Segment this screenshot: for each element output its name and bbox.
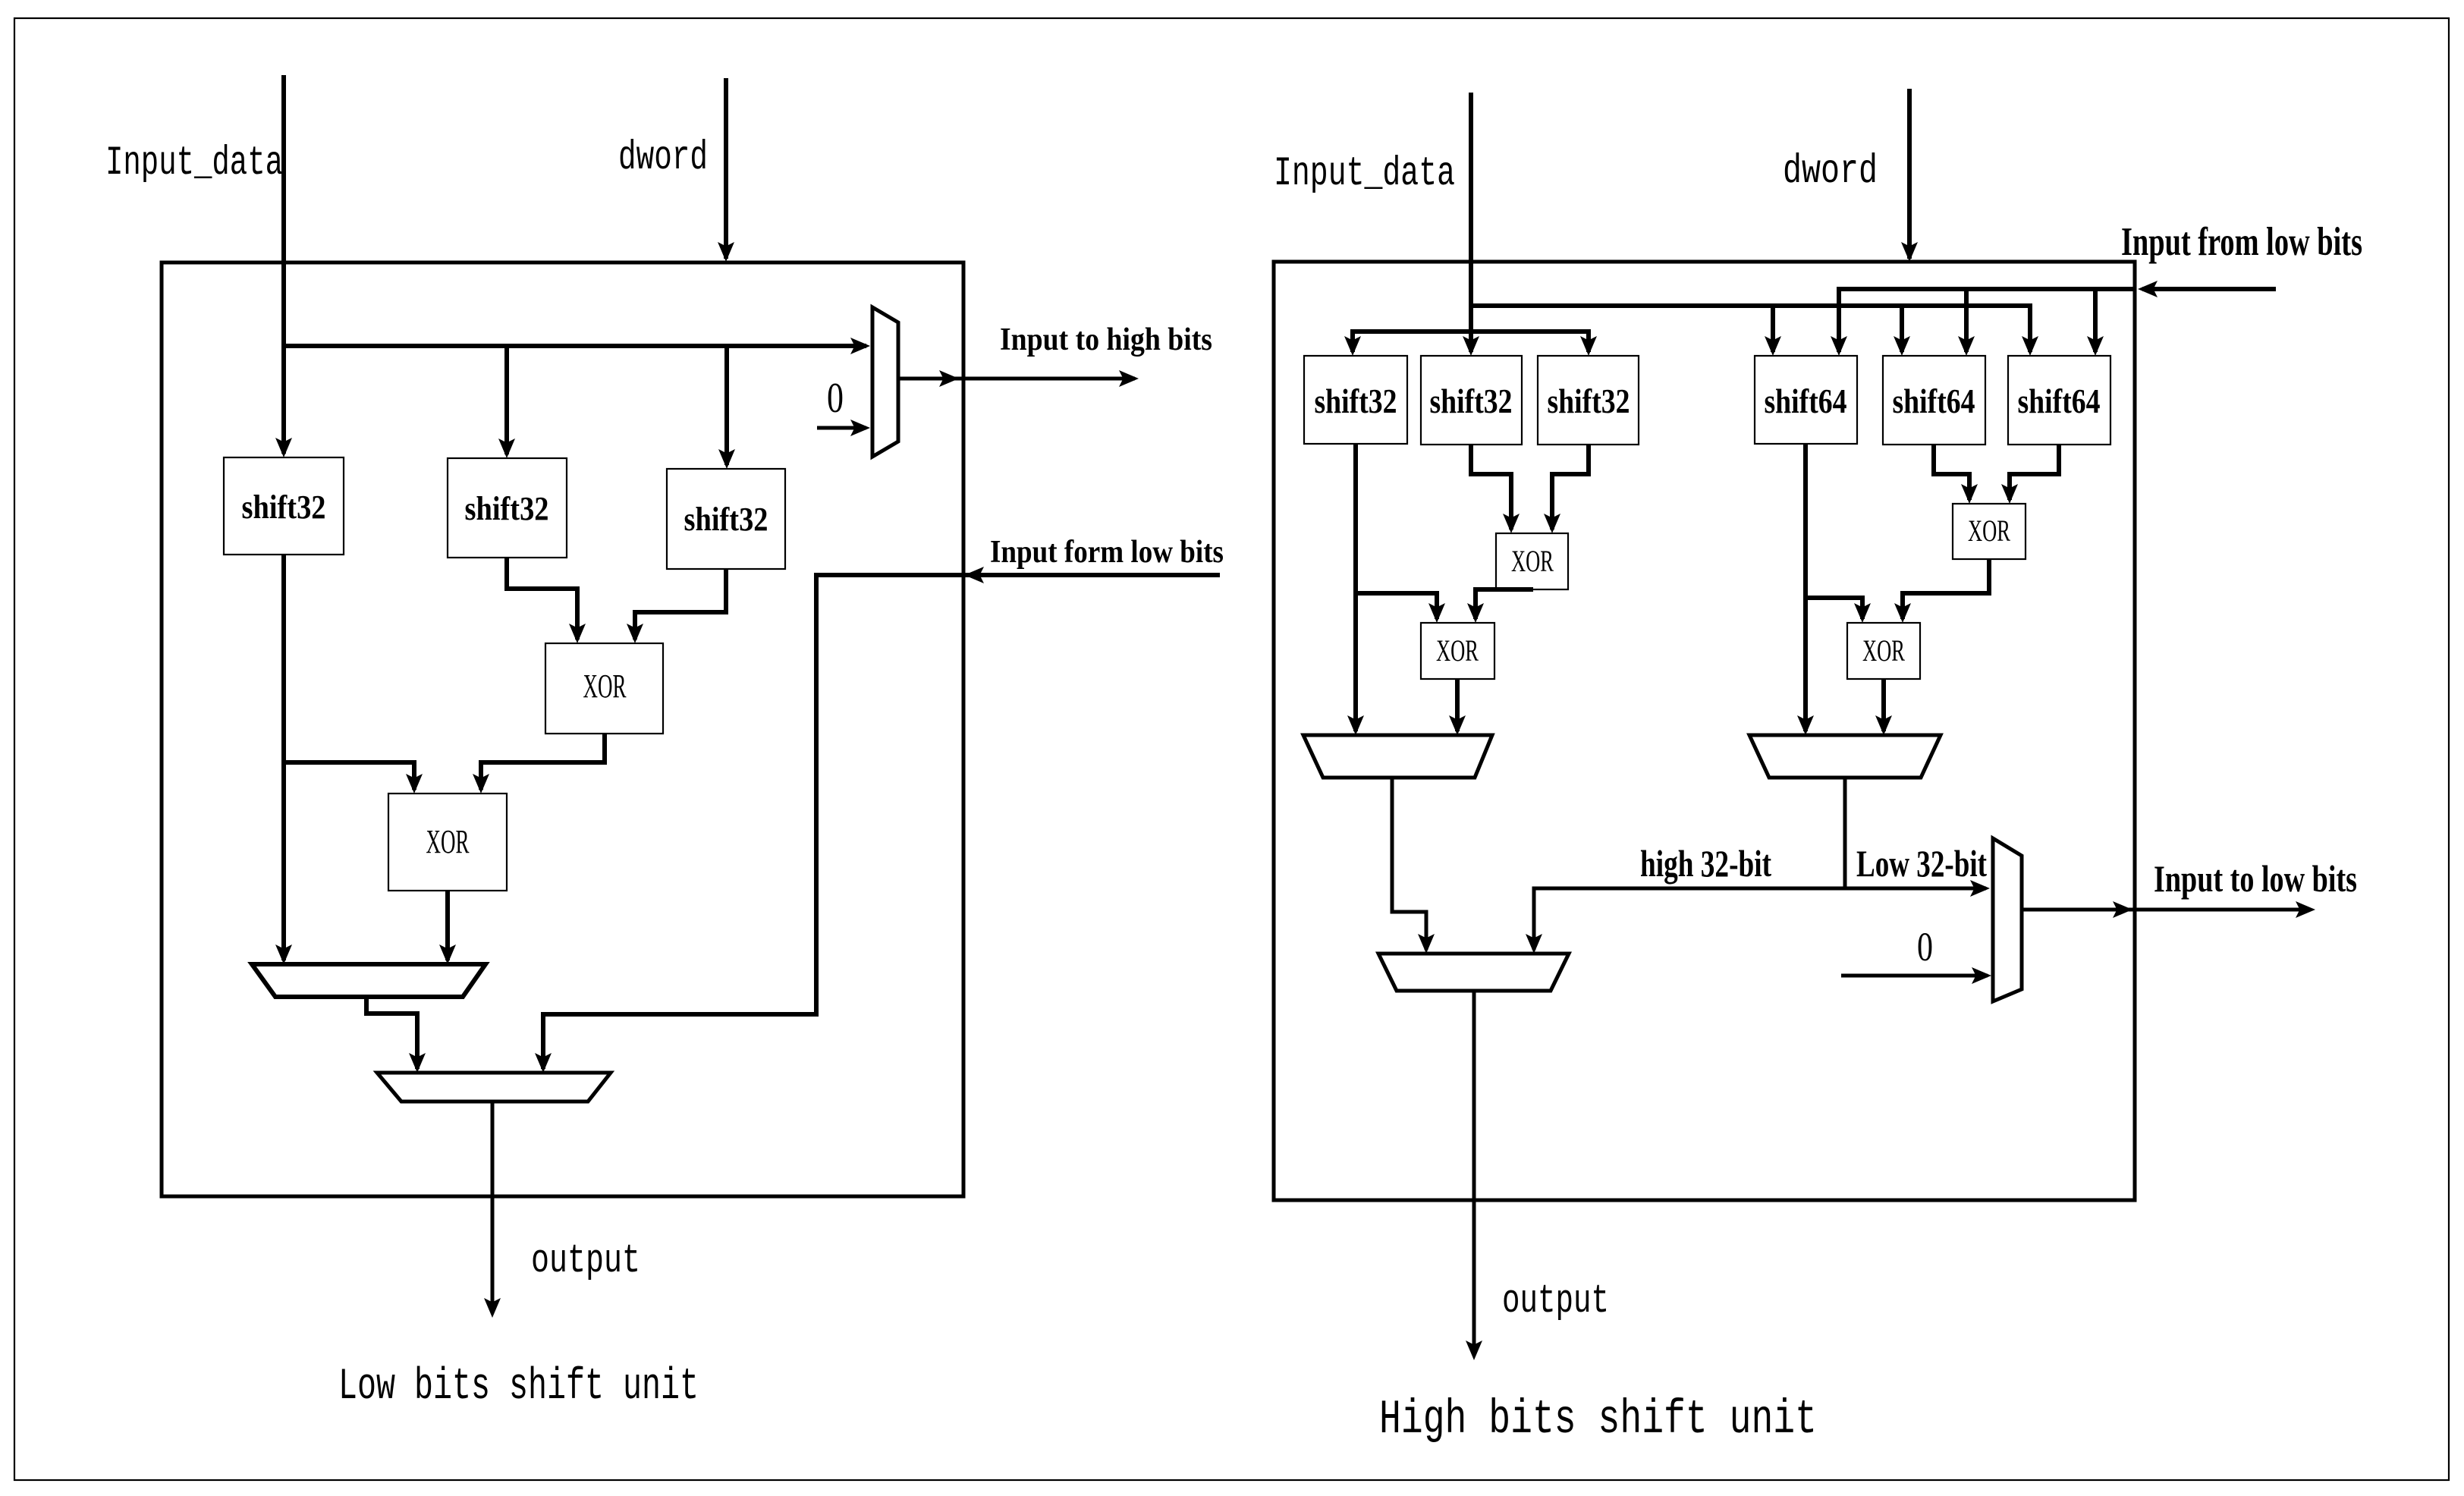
svg-text:Low bits shift unit: Low bits shift unit bbox=[338, 1362, 699, 1412]
wire low-bits bus (upper bus) bbox=[1839, 287, 2135, 291]
mux R3 (trapezoid) bbox=[1378, 954, 1569, 991]
svg-text:Input form low bits: Input form low bits bbox=[990, 535, 1224, 570]
svg-text:High bits shift unit: High bits shift unit bbox=[1379, 1393, 1817, 1447]
wire drop bus to shift64 R3 right input bbox=[2093, 289, 2098, 352]
svg-text:high 32-bit: high 32-bit bbox=[1640, 842, 1771, 885]
arrow into shift32 L1 bbox=[275, 438, 292, 457]
svg-text:shift32: shift32 bbox=[684, 501, 768, 538]
wire output (right unit) bbox=[1472, 991, 1476, 1356]
wire mux R4 output / Input to low bits bbox=[2022, 908, 2302, 912]
svg-text:XOR: XOR bbox=[583, 668, 627, 705]
arrow into shift32 L2 bbox=[498, 438, 515, 458]
svg-text:shift32: shift32 bbox=[1430, 382, 1513, 420]
arrow into shift64 R3 left input bbox=[2022, 336, 2038, 356]
svg-text:XOR: XOR bbox=[1968, 514, 2010, 548]
svg-text:shift32: shift32 bbox=[1548, 382, 1630, 420]
arrow into XOR RC right input bbox=[2001, 484, 2018, 504]
svg-text:shift32: shift32 bbox=[465, 490, 549, 527]
svg-text:shift64: shift64 bbox=[1765, 382, 1847, 420]
arrow dword into unit box (right) bbox=[1901, 242, 1918, 262]
wire shift32 L1 output down to mux L1 bbox=[281, 555, 286, 960]
arrow into shift64 R3 right input bbox=[2087, 336, 2104, 356]
arrow Input form low bits at box edge bbox=[964, 567, 984, 583]
XOR RB bbox=[1421, 623, 1494, 679]
XOR L1 bbox=[545, 643, 663, 734]
unit box (High bits shift unit) bbox=[1274, 262, 2135, 1200]
svg-text:shift64: shift64 bbox=[2018, 382, 2101, 420]
wire shift32 bus (right unit) bbox=[1353, 329, 1589, 334]
mux L1 (trapezoid) bbox=[252, 964, 486, 997]
arrow into XOR RB left input bbox=[1428, 603, 1445, 623]
wire shift64 R2 output to XOR RC bbox=[1934, 445, 1969, 500]
svg-text:shift32: shift32 bbox=[1315, 382, 1397, 420]
wire Input from low bits external arrow bbox=[2142, 287, 2276, 291]
arrow Input to high bits end bbox=[1119, 370, 1139, 387]
svg-text:XOR: XOR bbox=[1436, 633, 1479, 668]
arrow Input to low bits end bbox=[2296, 901, 2315, 918]
arrow into mux R3 left input bbox=[1418, 934, 1435, 954]
wire shift64 R3 output to XOR RC bbox=[2010, 445, 2059, 500]
arrow output (left unit) bbox=[484, 1298, 501, 1318]
arrow into XOR RB right input bbox=[1467, 603, 1484, 623]
arrow Low 32-bit into mux R4 bbox=[1970, 880, 1990, 897]
arrow dword into unit box (left) bbox=[718, 242, 734, 262]
arrow into XOR RA left input bbox=[1503, 514, 1520, 533]
arrow into mux R1 right input bbox=[1449, 715, 1466, 735]
arrow into shift32 R1 bbox=[1344, 336, 1361, 356]
svg-text:Input from low bits: Input from low bits bbox=[2121, 220, 2362, 264]
wire drop to shift64 R2 left input bbox=[1900, 306, 1904, 352]
arrow mux R4 output at box edge bbox=[2113, 901, 2132, 918]
wire branch shift64 R1 output to XOR RD bbox=[1806, 598, 1862, 619]
wire XOR L1 output to XOR L2 bbox=[481, 734, 605, 790]
wire dword (right) bbox=[1907, 89, 1912, 259]
svg-text:dword: dword bbox=[618, 135, 708, 181]
wire drop to shift32 R3 bbox=[1586, 329, 1591, 352]
arrow into mux L2 left input bbox=[409, 1053, 426, 1073]
svg-text:output: output bbox=[531, 1238, 640, 1284]
wire drop to shift64 R3 left input bbox=[2028, 303, 2032, 352]
svg-text:Input_data: Input_data bbox=[1274, 151, 1455, 197]
XOR RD bbox=[1847, 623, 1920, 679]
wire mux R2 output down bbox=[1843, 778, 1847, 888]
shift32 L2 bbox=[448, 458, 567, 558]
wire XOR RB output to mux R1 bbox=[1455, 679, 1460, 731]
arrow zero into mux ML bbox=[850, 420, 870, 436]
wire Input form low bits (external + internal) bbox=[543, 575, 1220, 1069]
arrow into XOR L1 right input bbox=[627, 624, 643, 643]
arrow into XOR RD left input bbox=[1854, 603, 1871, 623]
svg-text:dword: dword bbox=[1783, 149, 1878, 195]
svg-text:XOR: XOR bbox=[1511, 544, 1554, 578]
svg-text:output: output bbox=[1502, 1278, 1609, 1324]
wire Input_data (right) bbox=[1469, 93, 1473, 352]
arrow mux ML output at box edge bbox=[939, 370, 959, 387]
wire zero input to mux ML bbox=[817, 426, 866, 430]
svg-text:XOR: XOR bbox=[426, 823, 470, 860]
shift32 R3 bbox=[1538, 356, 1639, 445]
arrow into XOR L2 right input bbox=[473, 774, 489, 794]
arrow output (right unit) bbox=[1466, 1340, 1482, 1360]
svg-text:Input_data: Input_data bbox=[105, 140, 283, 187]
wire Input_data bus to shift64 left inputs (lower bus) bbox=[1471, 303, 2030, 308]
arrow Input from low bits at box edge bbox=[2138, 281, 2158, 297]
mux L2 (trapezoid) bbox=[377, 1073, 611, 1102]
arrow into XOR L1 left input bbox=[569, 624, 586, 643]
svg-text:shift32: shift32 bbox=[242, 489, 326, 526]
wire high 32-bit to mux R3 bbox=[1534, 888, 1845, 950]
shift32 R2 bbox=[1421, 356, 1522, 445]
wire Input_data (left) bbox=[281, 75, 286, 454]
wire drop to shift32 R1 bbox=[1350, 329, 1355, 352]
arrow into shift64 R2 left input bbox=[1894, 336, 1910, 356]
arrow into mux L2 right input bbox=[535, 1053, 552, 1073]
svg-text:Input to high bits: Input to high bits bbox=[1000, 322, 1212, 357]
arrow into mux R2 left input bbox=[1797, 715, 1814, 735]
shift64 R2 bbox=[1883, 356, 1985, 445]
wire drop to shift32 L2 bbox=[504, 346, 509, 454]
XOR RC bbox=[1953, 504, 2026, 559]
arrow into shift32 R2 bbox=[1463, 336, 1479, 356]
mux R4 (vertical mux near Input to low bits) bbox=[1993, 838, 2022, 1001]
shift64 R1 bbox=[1755, 356, 1857, 444]
arrow into XOR RA right input bbox=[1544, 514, 1560, 533]
arrow into shift32 L3 bbox=[718, 449, 735, 469]
arrow into mux R2 right input bbox=[1875, 715, 1892, 735]
arrow into shift64 R1 left input bbox=[1765, 336, 1781, 356]
wire XOR RA output to XOR RB bbox=[1476, 589, 1533, 619]
arrow into shift32 R3 bbox=[1580, 336, 1597, 356]
mux R2 (trapezoid) bbox=[1749, 735, 1941, 778]
arrow into shift64 R1 right input bbox=[1831, 336, 1847, 356]
wire XOR RD output to mux R2 bbox=[1881, 679, 1886, 731]
wire shift32 L3 output to XOR L1 bbox=[635, 569, 726, 640]
wire shift32 R3 output to XOR RA bbox=[1552, 445, 1589, 530]
wire drop bus to shift64 R2 right input bbox=[1964, 289, 1969, 352]
svg-text:shift64: shift64 bbox=[1893, 382, 1975, 420]
wire drop bus to shift64 R1 right input bbox=[1837, 287, 1841, 352]
svg-text:Low 32-bit: Low 32-bit bbox=[1856, 842, 1987, 885]
wire shift64 R1 output down to mux R2 bbox=[1803, 444, 1808, 731]
arrow into XOR L2 left input bbox=[406, 774, 423, 794]
svg-text:Input to low bits: Input to low bits bbox=[2154, 857, 2357, 900]
wire XOR L2 output to mux L1 bbox=[445, 891, 450, 960]
arrow into mux R1 left input bbox=[1347, 715, 1364, 735]
wire Low 32-bit to mux R4 bbox=[1845, 887, 1986, 891]
wire XOR RC output to XOR RD bbox=[1903, 559, 1989, 619]
wire mux L1 output to mux L2 bbox=[366, 997, 417, 1069]
arrow into shift64 R2 right input bbox=[1958, 336, 1975, 356]
wire internal bus to mux ML bbox=[284, 344, 866, 348]
arrow bus into mux ML top input bbox=[850, 338, 870, 354]
arrow into mux R3 right input bbox=[1526, 934, 1542, 954]
shift32 L1 bbox=[224, 457, 344, 555]
shift64 R3 bbox=[2008, 356, 2110, 445]
wire shift32 R2 output to XOR RA bbox=[1471, 445, 1511, 530]
arrow into mux L1 left input bbox=[275, 944, 292, 964]
arrow into XOR RD right input bbox=[1894, 603, 1911, 623]
wire mux R1 output to mux R3 bbox=[1392, 778, 1426, 950]
wire drop to shift64 R1 left input bbox=[1771, 306, 1775, 352]
svg-text:XOR: XOR bbox=[1862, 633, 1905, 668]
unit box (Low bits shift unit) bbox=[162, 262, 963, 1196]
wire branch shift32 R1 output to XOR RB bbox=[1356, 593, 1437, 619]
wire output (left unit) bbox=[491, 1102, 495, 1313]
shift32 L3 bbox=[667, 469, 785, 569]
wire branch from L1 output to XOR L2 left input bbox=[284, 762, 414, 790]
arrow into XOR RC left input bbox=[1961, 484, 1978, 504]
shift32 R1 bbox=[1304, 356, 1407, 444]
svg-text:0: 0 bbox=[827, 375, 844, 422]
wire shift32 L2 output to XOR L1 bbox=[507, 558, 577, 640]
svg-text:0: 0 bbox=[1917, 924, 1933, 970]
wire shift32 R1 output down to mux R1 bbox=[1353, 444, 1358, 731]
wire dword (left) bbox=[724, 78, 728, 259]
mux R1 (trapezoid) bbox=[1303, 735, 1492, 778]
mux ML (vertical mux near Input to high bits) bbox=[872, 307, 898, 457]
wire mux ML output / Input to high bits bbox=[898, 377, 1135, 381]
XOR RA bbox=[1496, 533, 1568, 589]
XOR L2 bbox=[388, 794, 507, 891]
wire drop to shift32 L3 bbox=[724, 346, 729, 465]
arrow zero into mux R4 bbox=[1972, 967, 1991, 984]
wire zero input to mux R4 bbox=[1841, 974, 1988, 978]
arrow into mux L1 right input bbox=[439, 944, 456, 964]
